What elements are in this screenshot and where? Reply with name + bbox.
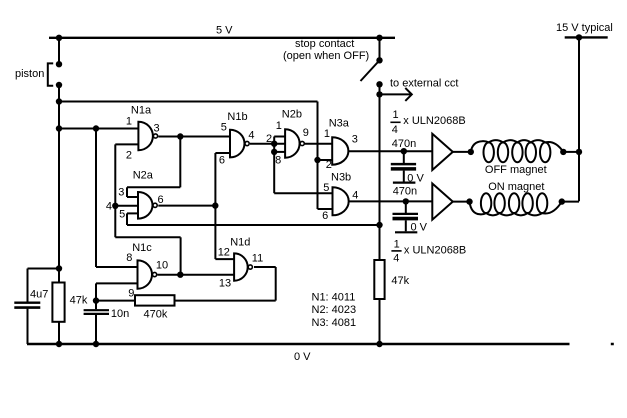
svg-text:8: 8 [126, 252, 132, 264]
svg-text:(open when OFF): (open when OFF) [283, 50, 369, 62]
svg-text:1: 1 [324, 128, 330, 140]
svg-text:470k: 470k [144, 309, 168, 321]
svg-text:8: 8 [275, 154, 281, 166]
svg-text:OFF magnet: OFF magnet [485, 164, 547, 176]
svg-text:6: 6 [219, 154, 225, 166]
svg-text:5: 5 [323, 182, 329, 194]
svg-text:1: 1 [393, 109, 399, 121]
svg-text:3: 3 [118, 186, 124, 198]
svg-text:5 V: 5 V [216, 25, 233, 37]
svg-text:4: 4 [248, 129, 254, 141]
svg-text:0 V: 0 V [294, 351, 311, 363]
svg-text:470n: 470n [393, 185, 417, 197]
svg-text:N2a: N2a [133, 169, 154, 181]
svg-text:N1a: N1a [131, 105, 152, 117]
svg-text:N1: 4011: N1: 4011 [312, 291, 356, 303]
svg-text:5: 5 [221, 121, 227, 133]
svg-text:6: 6 [158, 194, 164, 206]
svg-text:to external cct: to external cct [390, 77, 458, 89]
svg-text:3: 3 [352, 133, 358, 145]
svg-text:9: 9 [303, 127, 309, 139]
svg-text:0 V: 0 V [411, 221, 428, 233]
svg-text:9: 9 [128, 287, 134, 299]
svg-text:4: 4 [352, 189, 358, 201]
svg-text:10: 10 [156, 259, 168, 271]
svg-text:N3b: N3b [331, 172, 351, 184]
svg-text:x ULN2068B: x ULN2068B [403, 115, 465, 127]
svg-text:11: 11 [252, 252, 263, 264]
svg-text:2: 2 [266, 133, 272, 145]
svg-text:470n: 470n [392, 138, 416, 150]
svg-text:ON magnet: ON magnet [488, 181, 544, 193]
svg-text:2: 2 [126, 149, 132, 161]
svg-text:47k: 47k [70, 295, 88, 307]
svg-text:4: 4 [106, 201, 112, 213]
svg-text:12: 12 [218, 247, 230, 259]
svg-text:x ULN2068B: x ULN2068B [404, 244, 466, 256]
svg-text:47k: 47k [391, 275, 409, 287]
svg-text:1: 1 [276, 120, 282, 132]
svg-text:4: 4 [392, 124, 398, 136]
svg-text:1: 1 [126, 115, 132, 127]
svg-text:N3: 4081: N3: 4081 [312, 317, 357, 329]
svg-text:15 V typical: 15 V typical [556, 22, 613, 34]
svg-text:4u7: 4u7 [30, 288, 48, 300]
svg-text:13: 13 [219, 277, 231, 289]
svg-text:4: 4 [393, 252, 399, 264]
svg-text:5: 5 [119, 209, 125, 221]
svg-text:0 V: 0 V [407, 172, 424, 184]
svg-text:N2b: N2b [282, 109, 302, 121]
svg-text:N1b: N1b [227, 111, 247, 123]
svg-text:N1c: N1c [132, 242, 152, 254]
svg-text:N3a: N3a [329, 117, 350, 129]
svg-text:N1d: N1d [230, 236, 250, 248]
svg-text:3: 3 [154, 123, 160, 135]
svg-text:piston: piston [15, 68, 44, 80]
svg-text:stop contact: stop contact [295, 38, 354, 50]
svg-text:1: 1 [394, 238, 400, 250]
svg-text:2: 2 [326, 159, 332, 171]
svg-text:10n: 10n [111, 308, 129, 320]
svg-text:6: 6 [322, 210, 328, 222]
svg-text:N2: 4023: N2: 4023 [312, 304, 357, 316]
